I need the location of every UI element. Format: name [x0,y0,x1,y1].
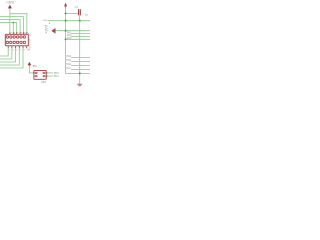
connector JP2 box [34,70,46,79]
connector JP2 right stubs [33,73,48,76]
wire JP1 pinA3 down-left [0,48,16,62]
wire JP2 pin2 [48,72,53,74]
svg-text:8: 8 [21,33,22,35]
wire row PA lower 2 [71,60,90,62]
wire row PA upper 1 [56,30,91,32]
wire row PA upper 4 [66,38,90,40]
svg-text:2X2: 2X2 [41,81,46,84]
connector JP1 pin numbers [9,33,29,52]
wire JP2 pin4 [48,75,53,77]
capacitor C1 plates [79,9,81,15]
wire supply to JP1 pin1 [9,9,11,32]
junction GND rail / right drop [79,20,81,22]
wire row PA upper 3 [71,35,90,37]
connector JP1 box [5,34,28,46]
connector JP1 top pin stubs [10,32,27,35]
svg-text:PA7: PA7 [67,67,72,70]
svg-text:5: 5 [16,49,17,51]
svg-text:AVR-ISP-10: AVR-ISP-10 [28,32,32,50]
svg-text:1u: 1u [85,13,88,17]
junction row4 / vertical [65,38,67,40]
connector JP1 pin circles row A [6,36,25,38]
svg-text:+3V3: +3V3 [44,25,48,34]
junction at cap branch [65,12,67,14]
svg-text:PD1: PD1 [54,75,59,78]
svg-text:9: 9 [24,49,25,51]
supply +3V3 P3 arrow [28,62,31,66]
wire net to JP1 pin3 [0,23,17,32]
svg-text:2: 2 [11,33,12,35]
svg-text:7: 7 [20,49,21,51]
wire GND horizontal [48,20,90,22]
junction row1 / vertical [65,30,67,32]
ground symbol [77,84,82,86]
junction pin2 branch [12,22,14,24]
connector JP1 bottom pin stubs [8,46,27,49]
wire branch to JP1 pin2 [12,23,14,32]
junction bottom rail [79,72,81,74]
wire JP1 pinA4 down-left [0,48,19,65]
wire right GND drop [79,21,81,84]
wire branch to JP1 pin6 [10,14,27,32]
wire cap to GND rail [79,16,81,21]
wire JP1 pinA2 down-left [0,48,12,59]
wire cap branch [66,12,79,14]
supply +3V3 P2 arrow top right [64,3,67,8]
connector JP2 pin circles [35,72,45,77]
svg-text:+3V3: +3V3 [6,1,14,5]
supply GND arrow mid [44,23,55,34]
wire net to JP1 pin5 [0,17,24,32]
svg-text:3: 3 [13,49,14,51]
svg-text:PA4: PA4 [67,55,72,58]
svg-text:PA5: PA5 [67,59,72,62]
svg-text:JP2: JP2 [32,65,37,68]
supply +3V3 P1 arrow [9,5,12,8]
wire JP1 pinA5 down-left [0,48,23,68]
svg-text:4: 4 [14,33,15,35]
svg-text:1: 1 [9,49,10,51]
wire main vertical right [66,8,90,74]
wire JP1 pinA1 down-left [0,48,8,56]
svg-text:C1: C1 [75,5,79,9]
svg-text:10: 10 [24,33,26,35]
svg-text:PA6: PA6 [67,63,72,66]
wire row PA upper 2 [71,33,90,35]
wire supply3 to JP2 [29,66,34,73]
connector JP1 pin circles row B [6,41,25,43]
wire net to JP1 pin4 [0,20,20,32]
svg-text:6: 6 [17,33,18,35]
junction GND rail / vertical [65,20,67,22]
wire row PA lower 1 [71,56,90,58]
wire row PA lower 3 [71,64,90,66]
wire row PA lower 4 [71,68,90,70]
svg-text:GND: GND [43,20,48,22]
